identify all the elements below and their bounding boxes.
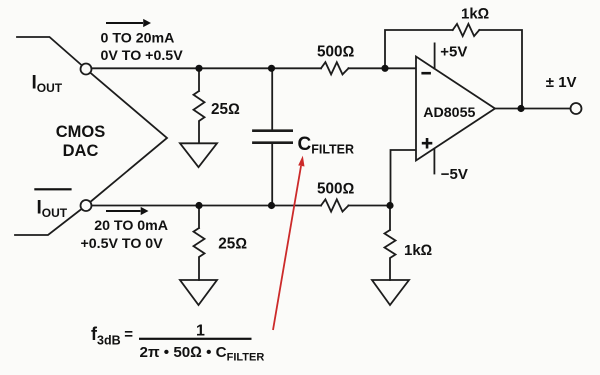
op-amp -5V supply pin: [433, 149, 435, 174]
svg-text:CFILTER: CFILTER: [298, 134, 355, 156]
svg-text:IOUT: IOUT: [37, 198, 68, 221]
svg-text:500Ω: 500Ω: [317, 180, 355, 197]
junction output node: [517, 105, 524, 112]
wire bottom net (IOUT-bar to 500ohm): [92, 205, 391, 207]
ground (bottom 25ohm): [180, 280, 217, 305]
svg-text:2π • 50Ω • CFILTER: 2π • 50Ω • CFILTER: [140, 344, 265, 364]
svg-text:+5V: +5V: [440, 44, 467, 61]
wire op-amp plus input from bottom net: [391, 150, 417, 206]
svg-text:1kΩ: 1kΩ: [461, 6, 489, 23]
current arrow bottom: [106, 207, 149, 215]
svg-text:+0.5V TO 0V: +0.5V TO 0V: [81, 236, 164, 252]
svg-text:AD8055: AD8055: [423, 105, 475, 121]
capacitor CFILTER plates: [253, 131, 291, 143]
annotation arrow (red) pointing to CFILTER: [273, 156, 305, 330]
junction bottom at 25ohm: [195, 202, 202, 209]
svg-text:0V TO +0.5V: 0V TO +0.5V: [101, 48, 184, 64]
terminal IOUT-bar (bottom output circle): [81, 200, 92, 211]
resistor 1kohm feedback (zigzag): [453, 24, 480, 36]
terminal output (open circle): [571, 103, 582, 114]
svg-text:0 TO 20mA: 0 TO 20mA: [101, 31, 175, 47]
CMOS DAC body: [15, 37, 167, 235]
wire feedback: up from minus net: [385, 30, 453, 68]
svg-text:1kΩ: 1kΩ: [404, 242, 432, 259]
wire feedback: right segment down to output node: [479, 30, 522, 109]
junction top at feedback: [381, 65, 388, 72]
junction top at capacitor: [268, 65, 275, 72]
svg-text:500Ω: 500Ω: [317, 43, 355, 60]
resistor R 25ohm top: wire + zigzag: [194, 68, 205, 143]
svg-text:DAC: DAC: [63, 142, 99, 160]
wire output: [495, 108, 571, 110]
wire top net (IOUT to op-amp minus input): [92, 67, 417, 69]
svg-text:20 TO 0mA: 20 TO 0mA: [94, 218, 168, 234]
svg-text:25Ω: 25Ω: [218, 236, 247, 253]
capacitor CFILTER: bottom wire: [271, 143, 273, 206]
ground (top 25ohm): [180, 143, 217, 167]
resistor R 25ohm bottom: wire + zigzag: [194, 206, 205, 281]
op-amp +5V supply pin: [434, 43, 436, 68]
current arrow top: [106, 19, 151, 27]
resistor 1kohm to ground: wire + zigzag: [385, 206, 396, 281]
IOUT-bar overline: [34, 188, 71, 190]
junction bottom at capacitor: [268, 202, 275, 209]
op-amp minus sign: [421, 72, 431, 75]
junction top at 25ohm: [195, 65, 202, 72]
op-amp plus sign: [422, 138, 433, 149]
svg-text:IOUT: IOUT: [32, 73, 63, 96]
capacitor CFILTER: top wire: [271, 68, 273, 130]
resistor 500ohm top (zigzag): [321, 62, 349, 74]
terminal IOUT (top output circle): [81, 64, 92, 75]
svg-text:1: 1: [196, 323, 205, 340]
ground (1kohm): [372, 280, 409, 305]
svg-text:CMOS: CMOS: [56, 123, 106, 141]
svg-text:± 1V: ± 1V: [546, 74, 577, 91]
svg-text:=: =: [124, 326, 133, 343]
formula fraction bar: [139, 338, 252, 340]
svg-text:−5V: −5V: [441, 166, 468, 183]
junction bottom at 1kohm: [386, 202, 393, 209]
svg-text:25Ω: 25Ω: [211, 101, 240, 118]
op-amp U1 AD8055 triangle: [416, 57, 495, 161]
resistor 500ohm bottom (zigzag): [321, 199, 349, 211]
svg-text:f3dB: f3dB: [91, 324, 121, 348]
